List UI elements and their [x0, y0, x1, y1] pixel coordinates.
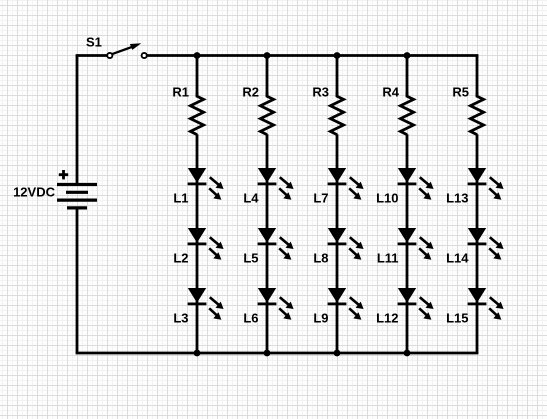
- LED L4: [258, 168, 294, 200]
- junction: bottom bus / branch 1: [194, 350, 201, 357]
- wire: branch 2 vertical (top bus to resistor): [266, 56, 269, 97]
- wire: branch 3 vertical (top bus to resistor): [336, 56, 339, 97]
- svg-text:R4: R4: [382, 85, 399, 100]
- wire: branch 4 vertical (top bus to resistor): [406, 56, 409, 97]
- svg-text:R3: R3: [312, 85, 329, 100]
- resistor R4: [400, 92, 413, 135]
- wire: left rail (battery negative loop): [76, 56, 79, 354]
- svg-text:12VDC: 12VDC: [13, 185, 56, 200]
- junction: top bus / branch 4: [404, 52, 411, 59]
- junction: top bus / branch 3: [334, 52, 341, 59]
- svg-text:L1: L1: [173, 191, 188, 206]
- resistor R5: [470, 92, 483, 135]
- junction: bottom bus / branch 3: [334, 350, 341, 357]
- LED L8: [328, 228, 364, 260]
- wire: branch 3 vertical (resistor to bottom bus): [336, 134, 339, 353]
- wire: branch 1 vertical (top bus to resistor): [196, 56, 199, 97]
- svg-text:L7: L7: [313, 191, 328, 206]
- resistor R2: [260, 92, 273, 135]
- junction: top bus / branch 2: [264, 52, 271, 59]
- svg-text:L14: L14: [446, 251, 469, 266]
- resistor R3: [330, 92, 343, 135]
- svg-text:R1: R1: [172, 85, 189, 100]
- wire: branch 1 vertical (resistor to bottom bus): [196, 134, 199, 353]
- svg-text:L12: L12: [376, 311, 398, 326]
- wire: stub from left rail to switch: [76, 54, 107, 57]
- junction: top bus / branch 1: [194, 52, 201, 59]
- battery 12VDC: [57, 185, 97, 208]
- svg-text:L15: L15: [446, 311, 468, 326]
- LED L15: [468, 288, 504, 320]
- wire: branch 5 vertical (resistor to bottom bus): [476, 134, 479, 353]
- wire: top bus: [147, 54, 478, 57]
- wire: branch 5 vertical (top bus to resistor): [476, 56, 479, 97]
- wire: bottom bus: [76, 352, 479, 355]
- svg-text:L13: L13: [446, 191, 468, 206]
- svg-text:L8: L8: [313, 251, 328, 266]
- LED L12: [398, 288, 434, 320]
- switch S1 (SPST, open): [107, 43, 147, 58]
- svg-text:R5: R5: [452, 85, 469, 100]
- junction: bottom bus / branch 2: [264, 350, 271, 357]
- svg-text:L5: L5: [243, 251, 258, 266]
- LED L13: [468, 168, 504, 200]
- svg-text:L3: L3: [173, 311, 188, 326]
- LED L7: [328, 168, 364, 200]
- LED L2: [188, 228, 224, 260]
- resistor R1: [190, 92, 203, 135]
- LED L14: [468, 228, 504, 260]
- svg-text:L6: L6: [243, 311, 258, 326]
- wire: branch 2 vertical (resistor to bottom bus): [266, 134, 269, 353]
- battery polarity + mark: [59, 170, 68, 179]
- svg-text:L10: L10: [376, 191, 398, 206]
- LED L11: [398, 228, 434, 260]
- junction: bottom bus / branch 4: [404, 350, 411, 357]
- LED L6: [258, 288, 294, 320]
- svg-text:S1: S1: [86, 35, 102, 50]
- LED L3: [188, 288, 224, 320]
- wire: branch 4 vertical (resistor to bottom bus): [406, 134, 409, 353]
- LED L10: [398, 168, 434, 200]
- svg-text:L4: L4: [243, 191, 259, 206]
- svg-text:R2: R2: [242, 85, 259, 100]
- svg-text:L11: L11: [377, 251, 399, 266]
- LED L9: [328, 288, 364, 320]
- LED L5: [258, 228, 294, 260]
- svg-text:L9: L9: [313, 311, 328, 326]
- LED L1: [188, 168, 224, 200]
- svg-text:L2: L2: [173, 251, 188, 266]
